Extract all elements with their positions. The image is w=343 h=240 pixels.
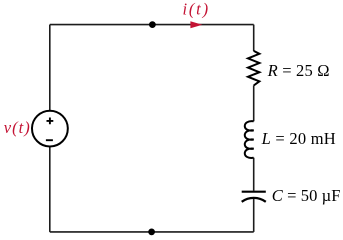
- node top junction dot: [149, 21, 156, 28]
- svg-text:R = 25 Ω: R = 25 Ω: [267, 61, 330, 80]
- svg-text:C = 50 µF: C = 50 µF: [272, 186, 341, 205]
- capacitor C1 top plate: [242, 191, 266, 193]
- svg-text:v(t): v(t): [4, 118, 31, 137]
- inductor L1 coils: [245, 121, 254, 158]
- resistor R1 zigzag: [248, 51, 259, 86]
- wire right: capacitor to bottom: [253, 198, 255, 232]
- current arrow: [190, 21, 202, 28]
- wire top: [50, 24, 254, 26]
- wire right: inductor to capacitor: [253, 158, 255, 191]
- plus sign: [47, 118, 54, 125]
- svg-text:i(t): i(t): [183, 0, 210, 18]
- minus sign: [46, 139, 53, 141]
- wire right: corner to resistor: [253, 25, 255, 51]
- capacitor C1 curved bottom plate: [242, 198, 266, 202]
- wire right: resistor to inductor: [253, 86, 255, 122]
- node bottom junction dot: [148, 229, 155, 236]
- wire left upper: [49, 25, 51, 111]
- svg-text:L = 20 mH: L = 20 mH: [261, 129, 336, 148]
- wire left lower: [49, 147, 51, 232]
- wire bottom: [50, 231, 254, 233]
- voltage source v(t) circle: [32, 111, 68, 147]
